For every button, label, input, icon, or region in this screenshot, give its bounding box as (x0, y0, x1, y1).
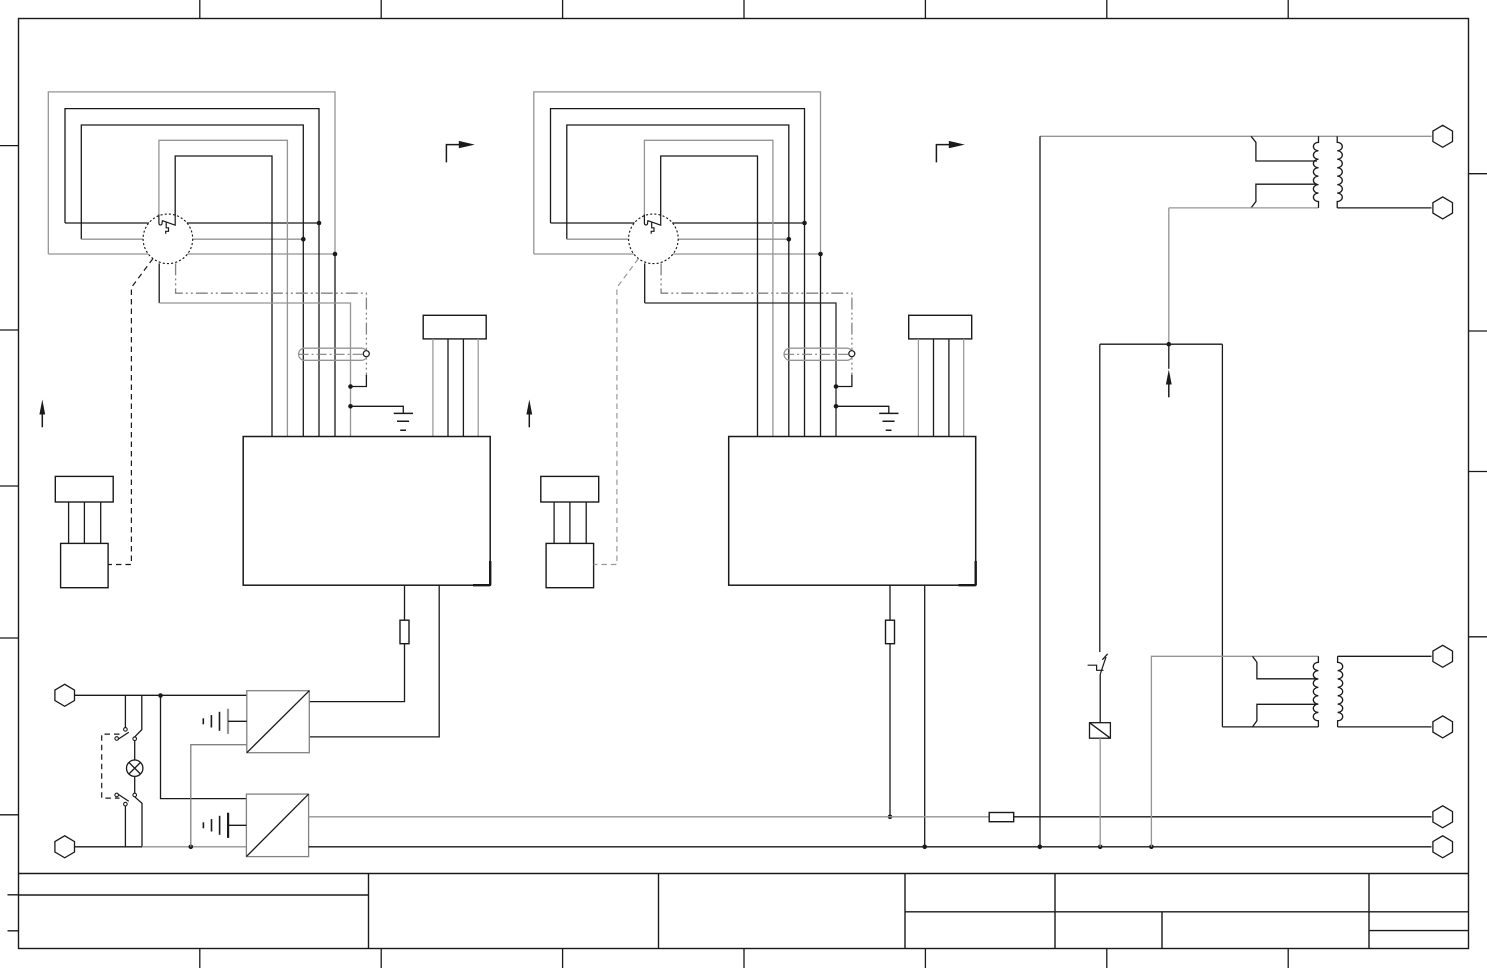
shield bond jumper of W1 (352, 375, 366, 387)
junction dot shield/ground 1 (348, 384, 353, 389)
thermal switch contact blade (1100, 657, 1106, 675)
switch S2 blade (118, 794, 129, 801)
thermal switch release tick (1102, 654, 1107, 660)
relay K1 coil (box with diagonal) (1090, 723, 1111, 739)
battery symbol of B10 (203, 709, 247, 734)
junction dot ground branch 1 (348, 404, 353, 409)
antenna loop L2.5 (inner turn) (661, 156, 758, 437)
connector housing X10 (423, 315, 486, 339)
ground wire from X2 (75, 846, 143, 848)
signal direction arrow at amplifier node (1166, 370, 1172, 398)
ground wire routing of W1 (159, 303, 350, 437)
antenna loop L2.2 (second turn) (551, 109, 805, 223)
junction dot loop L2.3 (787, 237, 792, 242)
switch S2 moving contact (115, 793, 119, 797)
second wire from control unit J1 to converter B10 (309, 585, 439, 737)
connector X20 pin wires (918, 339, 963, 437)
terminal connector X5 (hexagon) (1433, 806, 1453, 828)
switch S1 blade (118, 732, 129, 739)
transformer T2 primary bottom wire (1222, 726, 1318, 728)
ignition key symbol inside W1 (159, 215, 175, 234)
supply wire from X1 to converter B10 (75, 694, 247, 696)
screen pick-off point 2 (small circle) (849, 351, 855, 357)
ground lead from reader coil W1 (158, 263, 160, 303)
antenna loop L1.3 (third turn) (81, 125, 303, 239)
ground bus from B11 to connector X6 (309, 846, 1432, 848)
junction dot loop L2.2 (802, 221, 807, 226)
junction dot ground/B10 return (189, 845, 194, 850)
aerial feeder down wire (1039, 136, 1041, 847)
aerial connector X3 (hexagon) (1433, 125, 1453, 147)
corner arrow marker 1 (446, 141, 474, 163)
mechanical link dashed box (102, 734, 120, 798)
antenna loop L1.1 (outer turn) (48, 92, 335, 254)
wire from resistor R1 to converter B10 (309, 644, 404, 702)
screening sleeve around harness 1 (capsule) (299, 348, 368, 360)
wire from loop L2.1 to control unit (820, 254, 822, 437)
aerial connector X4 (hexagon) (1433, 197, 1453, 219)
sensor body B1 (61, 543, 109, 587)
junction dot loop L1.2 (317, 221, 322, 226)
antenna loop L1.2 (second turn) (65, 109, 319, 223)
title block (19, 874, 1469, 949)
ignition key symbol inside W2 (644, 215, 660, 234)
battery symbol of B11 (203, 813, 246, 838)
junction dot amplifier node (1167, 342, 1172, 347)
transformer T2 tap jog upper (1253, 656, 1318, 679)
antenna loop L2.1 (outer turn) (534, 92, 821, 254)
wire from control unit J1 to resistor R1 (404, 585, 406, 620)
transformer T2 secondary coil (1338, 656, 1343, 727)
right branch wire down to transformer T2 (1221, 344, 1223, 727)
junction dot loop L2.1 (818, 252, 823, 257)
wire thermal switch to relay K1 (1099, 674, 1101, 722)
sensor connector housing X21 (541, 476, 599, 502)
control unit J1 bottom-right corner accent (473, 561, 490, 585)
branch wire from supply to converter B11 (161, 696, 247, 799)
resistor R2 (886, 620, 895, 644)
fuse F1 on positive bus (989, 813, 1014, 822)
terminal connector X1 (hexagon) (55, 684, 75, 706)
reader coil ring W2 (dashed circle) (629, 214, 679, 264)
transformer T1 tap jog lower (1251, 184, 1317, 208)
junction dot J2/ground bus (922, 845, 927, 850)
wire from control unit J2 to resistor R2 (889, 585, 891, 620)
wire to indicator lamp H1 (135, 696, 142, 737)
dashed control link from W2 to sensor B2 (594, 259, 639, 565)
wire from loop L2.3 to control unit (788, 239, 790, 436)
up arrow marker left (39, 400, 45, 428)
wire from supply to switch S1 (124, 696, 126, 728)
positive bus from fuse F1 to connector X5 (1014, 816, 1432, 818)
wire from loop L2.2 to control unit (804, 223, 806, 437)
wire from loop L1.2 to control unit (318, 223, 320, 437)
converter B10 (box with diagonal) (247, 691, 309, 753)
lamp H1 lower terminal (133, 793, 137, 797)
terminal connector X6 (hexagon) (1433, 836, 1453, 858)
ground lead from reader coil W2 (644, 263, 646, 303)
aerial connector X7 (hexagon) (1433, 645, 1453, 667)
transformer T2 primary coil (1313, 656, 1318, 727)
wire relay K1 to ground bus (grey) (1099, 738, 1101, 847)
loop L2.3 bottom side (567, 238, 789, 240)
antenna loop L1.4 (fourth turn) (159, 140, 288, 436)
indicator lamp H1 (127, 760, 143, 776)
control unit J2 bottom-right corner accent (959, 561, 976, 585)
sensor connector X11 pins (69, 502, 101, 543)
junction dot ground bus / antenna feeder (1038, 845, 1043, 850)
junction dot ground bus / relay K1 (1098, 845, 1103, 850)
transformer T1 primary coil (1313, 136, 1318, 208)
switch S1 fixed contact (124, 728, 128, 732)
transformer T1 primary bottom wire (grey) (1169, 207, 1319, 209)
terminal connector X2 (hexagon) (55, 836, 75, 858)
junction dot ground branch 2 (834, 404, 839, 409)
junction dot supply/branch to B11 (158, 693, 163, 698)
transformer T1 tap jog upper (1251, 136, 1317, 161)
antenna loop L2.4 (fourth turn) (644, 140, 773, 436)
ground symbol near control unit 2 (836, 406, 889, 413)
shield line of W1 (dash-dot) (176, 263, 367, 376)
wire from loop L1.1 to control unit (334, 254, 336, 437)
shield line of W2 (dash-dot) (661, 263, 852, 376)
dashed control link from W1 to sensor B1 (108, 259, 153, 565)
wire from lamp H1 to ground wire (135, 797, 142, 847)
thermal switch actuator notch (1088, 665, 1104, 670)
aerial connector X8 (hexagon) (1433, 716, 1453, 738)
wire from switch S2 to X2 (124, 806, 126, 847)
corner arrow marker 2 (936, 141, 964, 163)
connector X10 pin wires (433, 339, 478, 437)
wire from resistor R2 to positive bus (889, 644, 891, 817)
transformer T1 secondary coil (1337, 136, 1342, 208)
wire transformer T1 to amplifier node (grey) (1168, 208, 1170, 344)
positive bus from B11 (grey section) (309, 816, 990, 818)
lamp H1 upper lead (134, 741, 136, 761)
sensor connector X21 pins (554, 502, 586, 543)
wire from loop L1.3 to control unit (302, 239, 304, 436)
transformer T2 secondary bottom wire (1338, 726, 1432, 728)
second wire from control unit J2 to ground bus (924, 585, 926, 847)
lamp H1 lower lead (134, 776, 136, 793)
ground wire routing of W2 (645, 303, 836, 437)
sensor body B2 (546, 543, 594, 587)
junction dot R2/positive bus (888, 815, 893, 820)
converter B11 (box with diagonal) (246, 794, 308, 857)
junction dot loop L1.1 (333, 252, 338, 257)
transformer T2 secondary top wire (1338, 655, 1432, 657)
junction dot shield/ground 2 (834, 384, 839, 389)
switch S1 moving contact (115, 737, 119, 741)
junction dot loop L1.3 (301, 237, 306, 242)
ground symbol near control unit 1 (351, 406, 404, 413)
aerial feeder top wire (grey) (1040, 135, 1432, 137)
screen pick-off point 1 (small circle) (363, 351, 369, 357)
antenna loop L1.5 (inner turn) (175, 156, 272, 437)
antenna loop L2.3 (third turn) (567, 125, 789, 239)
control unit J2 (large box) (729, 437, 976, 586)
loop L1.3 bottom side (81, 238, 303, 240)
amplifier node horizontal rail (1100, 343, 1223, 345)
transformer T2 tap jog lower (1253, 704, 1318, 727)
return wire B10 to ground bus (grey) (191, 745, 247, 847)
amplifier feed stub with arrow (1168, 344, 1170, 369)
junction dot ground bus / transformer T2 (1149, 845, 1154, 850)
control unit J1 (large box) (243, 437, 490, 586)
shield bond jumper of W2 (838, 375, 852, 387)
wire ground bus to transformer T2 primary (grey) (1151, 656, 1318, 847)
screening sleeve centreline 2 (784, 353, 849, 355)
resistor R1 (400, 620, 409, 644)
connector housing X20 (909, 315, 972, 339)
ground wire continuation to converter B11 (grey) (142, 846, 246, 848)
screening sleeve around harness 2 (capsule) (784, 348, 853, 360)
lamp H1 upper terminal (133, 737, 137, 741)
left branch wire down to thermal switch (1099, 344, 1101, 652)
switch S2 fixed contact (124, 802, 128, 806)
screening sleeve centreline 1 (299, 353, 364, 355)
up arrow marker middle (526, 400, 532, 428)
transformer T1 secondary bottom wire (1337, 207, 1431, 209)
reader coil ring W1 (dashed circle) (143, 214, 193, 264)
sensor connector housing X11 (55, 476, 113, 502)
